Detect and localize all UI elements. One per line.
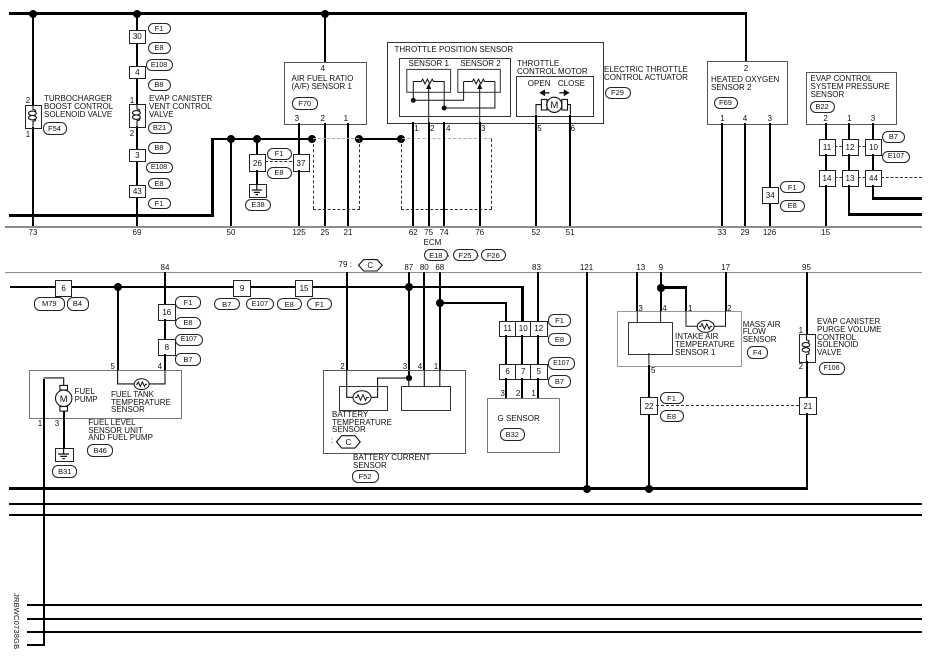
ground symbol E38	[249, 184, 267, 199]
connector F29	[605, 87, 631, 99]
connector B8	[148, 142, 171, 154]
ground symbol B31	[55, 448, 74, 462]
connector B7	[548, 375, 571, 388]
junction inside battery sensor on pin 3 wire	[406, 375, 412, 381]
splice box 4	[129, 66, 146, 80]
label: BATTERY TEMPERATURE SENSOR	[332, 411, 392, 434]
wire 13 from ECM to mass air flow sensor pin 3	[636, 272, 638, 311]
wire: A/F sensor pin 4 supply	[324, 14, 326, 62]
label: EVAP CONTROL SYSTEM PRESSURE SENSOR	[811, 75, 890, 98]
pin 1 label of purge solenoid	[796, 326, 806, 335]
wire: splice 26 to ground E38	[256, 170, 258, 184]
wire: HO2S pin 1 to ECM 33	[721, 123, 723, 226]
wire: splice 21 down to ground bus corner	[806, 413, 808, 490]
connector F1	[148, 23, 171, 35]
label: HEATED OXYGEN SENSOR 2	[711, 76, 779, 91]
wire 73 (solenoid to ECM pin 73)	[32, 127, 34, 226]
shield A around A/F signal wires (dashed)	[0, 0, 931, 1]
wire: rail junction down to fuel pump pin 5	[117, 289, 119, 371]
wire: splice 8 to fuel tank temp sensor pin 4	[164, 354, 166, 370]
junction: shield A left	[308, 135, 316, 143]
dashed link splice 26 to 37	[265, 161, 293, 162]
label: THROTTLE CONTROL MOTOR	[517, 60, 588, 75]
splice box 13	[842, 170, 859, 187]
wire: TPS pin 4 to ECM 74	[443, 122, 445, 226]
splice box 12 (G sensor)	[530, 321, 548, 337]
label: FUEL TANK TEMPERATURE SENSOR	[111, 391, 171, 414]
pin 1 of B21	[126, 96, 138, 105]
pin labels 1 2 4 3 of TPS	[0, 0, 931, 1]
connector E8	[148, 178, 171, 190]
mass air flow sensor box	[617, 311, 742, 367]
connector E8	[277, 298, 302, 311]
splice box 44	[865, 170, 882, 187]
connector E8	[267, 167, 292, 179]
junction on supply rail (A/F sensor pin 4)	[321, 10, 329, 18]
pin labels 1 and 3 of fuel pump	[0, 0, 931, 1]
splice box 11	[819, 139, 836, 156]
wire: bus drop to splice 26	[256, 140, 258, 155]
wire: ground bus (EVAP purge return)	[9, 487, 808, 490]
connector B22	[810, 101, 835, 114]
splice box 43	[129, 185, 146, 199]
junction: wire 9 branch to MAF pin 1	[657, 284, 665, 292]
splice box 16	[158, 304, 176, 321]
wire 79 from ECM to battery current sensor pin 2	[346, 272, 348, 370]
wires splices to second row	[0, 0, 931, 1]
connector E107	[246, 298, 274, 311]
splice box 5 (G sensor)	[530, 364, 548, 381]
connector E107	[882, 151, 910, 164]
wire: bottom line 1	[27, 604, 922, 607]
MAF inner element box	[628, 322, 673, 355]
junction on supply rail (wire 73)	[29, 10, 37, 18]
connector F1	[660, 392, 684, 405]
label: ELECTRIC THROTTLE CONTROL ACTUATOR	[604, 66, 688, 81]
battery temperature sensor inner box	[339, 386, 388, 411]
wire: ECM ground rail (pins 6/9/15 row)	[10, 286, 524, 289]
wire: HO2S pin 3 to splice 34	[769, 123, 771, 187]
wire: supply drop to heated oxygen sensor 2 pin 2	[745, 12, 748, 62]
connector F70	[292, 97, 319, 110]
connector E8	[148, 42, 171, 54]
wire: splice 14 to ECM 15	[825, 185, 827, 226]
label: EVAP CANISTER PURGE VOLUME CONTROL SOLENOID VALVE	[817, 318, 881, 357]
pin 2 label	[313, 114, 333, 123]
pin 2 label of purge solenoid	[796, 362, 806, 371]
wire: splice 34 to ECM 126	[769, 202, 771, 226]
junction: wire 121 on ground bus	[583, 485, 591, 493]
splice box 22	[640, 397, 659, 415]
dashed link splice 22 to splice 21	[656, 405, 799, 406]
connector B32	[500, 428, 525, 441]
wire: branch to G sensor splice 11	[0, 0, 931, 1]
battery sensor inner measuring box	[401, 386, 451, 411]
label: FUEL LEVEL SENSOR UNIT AND FUEL PUMP	[88, 419, 153, 442]
pin labels 5 and 4 of fuel level sensor unit	[0, 0, 931, 1]
splice box 8	[158, 339, 176, 356]
wire: ground feed line to left edge	[9, 214, 213, 217]
connector F1	[780, 181, 805, 193]
connector F106	[819, 362, 845, 375]
wire: branch to MAF pin 1	[0, 0, 931, 1]
solenoid valve F54 - turbocharger boost control: body	[25, 105, 42, 130]
connector F1	[267, 148, 292, 160]
splice box 10	[865, 139, 882, 156]
shield B around throttle sensor wires (dashed)	[0, 0, 931, 1]
connector B21	[148, 122, 172, 134]
splice box 3	[129, 149, 146, 163]
connector E8	[780, 200, 805, 212]
pin 5 label	[534, 124, 546, 133]
pin 1 label	[336, 114, 356, 123]
connector B7	[214, 298, 240, 311]
EVAP control system pressure sensor box	[806, 72, 897, 125]
connector F52	[352, 470, 379, 483]
label: FUEL PUMP	[75, 388, 98, 403]
pin labels 1 4 3 of HO2S	[0, 0, 931, 1]
label 79 : for connector C	[339, 261, 352, 269]
splice box 11 (G sensor)	[499, 321, 517, 337]
pin labels 3 4 1 2 of MAF sensor	[0, 0, 931, 1]
label OPEN	[528, 80, 551, 88]
connector F26	[481, 249, 506, 261]
wire: splice 13 right off-page	[0, 0, 931, 1]
connector M79	[34, 297, 66, 311]
label: TURBOCHARGER BOOST CONTROL SOLENOID VALVE	[44, 95, 113, 118]
connector B7	[175, 353, 201, 366]
connector F54	[43, 122, 67, 135]
wire: pin 1 to splice 12	[848, 123, 850, 139]
wire: shield ground bus solid segment between shields	[358, 138, 403, 141]
pin 2 of B21	[126, 129, 138, 138]
wire: bottom line 3	[27, 631, 922, 634]
splice box 34	[762, 187, 779, 204]
connector E8	[175, 317, 201, 330]
wire: TPS pin 3 to ECM 76	[479, 122, 481, 226]
pin 1 of F54	[22, 130, 34, 139]
splice box 26	[249, 154, 266, 171]
wire: bottom line 2	[27, 618, 922, 621]
pin labels 2 1 3	[0, 0, 931, 1]
wire: throttle motor pin 5 to ECM 52	[535, 115, 537, 226]
wire: battery supply rail (top)	[9, 12, 745, 15]
pin labels 2 3 4 1 of battery current sensor	[0, 0, 931, 1]
splice box 6 on rail	[55, 280, 73, 297]
label : for connector C	[331, 437, 333, 445]
splice box 30	[129, 30, 146, 44]
connector F1	[548, 314, 571, 327]
wire 87 from ECM to battery current sensor pin 3	[408, 272, 410, 378]
throttle control motor box	[516, 76, 594, 116]
wire: splice 16 to splice 8	[164, 319, 166, 339]
label: EVAP CANISTER VENT CONTROL VALVE	[149, 95, 212, 118]
connector F1	[148, 198, 171, 210]
connector F25	[453, 249, 478, 261]
connector E8	[660, 410, 684, 423]
junction: bus to ECM pin 50 wire	[227, 135, 235, 143]
label: MASS AIR FLOW SENSOR	[743, 321, 781, 344]
splice box 9 on rail	[233, 280, 251, 297]
connector B31	[52, 465, 77, 478]
wire: A/F pin 1 to ECM pin 21	[347, 123, 349, 226]
air fuel ratio sensor 1 box	[284, 62, 367, 125]
label: INTAKE AIR TEMPERATURE SENSOR 1	[675, 333, 735, 356]
ECM strip bottom border	[5, 272, 922, 274]
connector E108	[146, 162, 173, 174]
junction: wire 68 branch to G sensor splice 11	[436, 299, 444, 307]
splice box 21	[799, 397, 817, 415]
wires splice row1 to row2	[0, 0, 931, 1]
wire: MAF pin 5 to ground bus	[648, 365, 650, 490]
wire 80 from ECM to battery current sensor pin 4	[423, 272, 425, 370]
fuel level sensor unit box	[29, 370, 182, 418]
wire 84 from ECM to splice 16	[164, 272, 166, 304]
junction: shield B left	[397, 135, 405, 143]
pin 3 label	[287, 114, 307, 123]
connector B8	[148, 79, 171, 91]
connector F4	[747, 346, 769, 359]
splice box 6 (G sensor)	[499, 364, 517, 381]
wire 50 (bus to ECM pin 50)	[230, 140, 232, 226]
wire: pin 2 to splice 11	[825, 123, 827, 139]
label: AIR FUEL RATIO (A/F) SENSOR 1	[292, 75, 354, 90]
throttle position sensor inner box	[399, 58, 511, 118]
wire: splice 44 right off-page	[0, 0, 931, 1]
junction: MAF pin 5 wire on ground bus	[645, 485, 653, 493]
pin 4 label of A/F sensor	[313, 64, 333, 73]
wire 17 from ECM to MAF pin 2	[725, 272, 727, 311]
throttle position sensor outer box	[387, 42, 604, 124]
ECM strip top border	[5, 226, 922, 228]
junction: rail to battery sensor pin 3 wire (87)	[405, 283, 413, 291]
label: diagram code JRBWC0738GB (vertical)	[12, 593, 21, 649]
wire 68 from ECM to battery current sensor pin 1	[439, 272, 441, 370]
ECM bottom pin numbers row	[0, 0, 931, 1]
solenoid valve F106 - EVAP canister purge volume control: body	[799, 334, 816, 364]
connector F69	[714, 97, 738, 110]
connector E18	[424, 249, 449, 261]
label: THROTTLE POSITION SENSOR	[395, 46, 514, 54]
wire 73 (supply to turbocharger boost solenoid)	[32, 14, 34, 105]
wire: TPS pin 1 to ECM 62	[412, 122, 414, 226]
comma	[477, 250, 479, 258]
splice box 15 on rail	[295, 280, 313, 297]
wire: TPS pin 2 to ECM 75	[428, 122, 430, 226]
wire 9 from ECM to MAF pin 4	[660, 272, 662, 311]
wire 95 from ECM to EVAP purge solenoid pin 1	[806, 272, 808, 334]
comma	[447, 250, 449, 258]
label SENSOR 2	[460, 60, 500, 68]
pin labels 3 2 1 of G sensor	[0, 0, 931, 1]
label SENSOR 1	[409, 60, 449, 68]
wire 121 from ECM to ground bus	[586, 272, 588, 489]
wire: throttle motor pin 6 to ECM 51	[569, 115, 571, 226]
pin 6 label	[567, 124, 579, 133]
junction: bus to E38 ground branch	[253, 135, 261, 143]
splice box 37 on A/F sensor pin 3 wire	[293, 154, 310, 171]
G sensor box	[487, 398, 561, 453]
wire: HO2S pin 4 to ECM 29	[744, 123, 746, 226]
wire: splice 37 to ECM pin 125	[298, 170, 300, 226]
connector E107	[175, 334, 203, 346]
wire: fuel pump pin 3 to ground B31	[63, 411, 65, 448]
connector E108	[146, 59, 173, 71]
wire: A/F pin 3 to splice 37	[298, 123, 300, 154]
pin 5 label of MAF	[651, 367, 655, 375]
wire: power line 2	[9, 514, 922, 517]
wire: fuel pump pin 1 ground wire (long vertical)	[0, 0, 931, 1]
solenoid valve B21 - EVAP canister vent control: body	[129, 104, 146, 128]
dashed links between splices 11-12-10	[0, 0, 931, 1]
wire 69 segments (EVAP canister vent valve branch)	[0, 0, 931, 1]
wire: shield bus elbow down	[211, 138, 214, 217]
wire: rail corner down to G sensor splice 10	[521, 286, 524, 321]
connector B4	[67, 297, 89, 311]
wire: power line 1	[9, 503, 922, 506]
connector B7	[882, 131, 905, 144]
wire: shield ground bus horizontal	[211, 138, 314, 141]
junction: rail to fuel pump pin 5	[114, 283, 122, 291]
pin 2 of F54	[22, 96, 34, 105]
connector F1	[307, 298, 332, 311]
wire: A/F pin 2 to ECM pin 25	[324, 123, 326, 226]
connector E8	[548, 333, 571, 346]
junction: shield A right	[355, 135, 363, 143]
dashed links 14-13-44 and off to right	[0, 0, 931, 1]
label: BATTERY CURRENT SENSOR	[353, 454, 430, 469]
svg-text:C: C	[367, 261, 373, 270]
splice box 7 (G sensor)	[515, 364, 533, 381]
splice box 14	[819, 170, 836, 187]
wire: pin 3 to splice 10	[872, 123, 874, 139]
ECM top pin numbers row	[0, 0, 931, 1]
splice box 12	[842, 139, 859, 156]
connector B46	[87, 444, 113, 457]
junction on supply rail (wire 69)	[133, 10, 141, 18]
connector E38	[245, 199, 271, 212]
wire 83 from ECM to G sensor splice 12	[537, 272, 539, 321]
label: G SENSOR	[498, 415, 540, 423]
wires to G sensor pins	[0, 0, 931, 1]
pin 2 label of HO2S	[736, 64, 756, 73]
label ECM	[424, 239, 442, 247]
splice box 10 (G sensor)	[515, 321, 533, 337]
connector F1	[175, 296, 201, 309]
connector E107	[548, 357, 575, 370]
battery current sensor box	[323, 370, 466, 454]
heated oxygen sensor 2 box	[707, 61, 788, 125]
label CLOSE	[558, 80, 585, 88]
wire: purge solenoid pin 2 to splice 21	[806, 361, 808, 397]
